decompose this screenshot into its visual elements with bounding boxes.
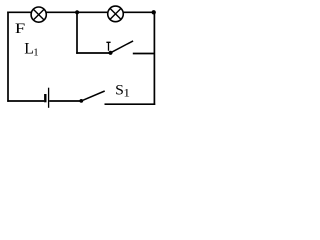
wire switch fixed contact to right vertical bbox=[133, 53, 155, 55]
node A junction dot (top branch) bbox=[75, 10, 79, 14]
battery negative plate (short thick) bbox=[44, 94, 46, 102]
svg-text:F: F bbox=[15, 20, 25, 37]
node B junction dot (top right corner) bbox=[152, 10, 156, 14]
switch pivot dot (lamp branch switch) bbox=[108, 51, 112, 55]
wire branch vertical (node A down) bbox=[76, 12, 78, 54]
svg-text:S1: S1 bbox=[115, 83, 130, 99]
wire top (node A to corners) bbox=[7, 11, 155, 13]
lamp L1 (F) bbox=[31, 7, 46, 22]
switch terminal tick (T handle) bbox=[106, 42, 110, 50]
wire branch horizontal (to switch pivot) bbox=[76, 52, 110, 54]
wire right vertical bbox=[153, 12, 155, 106]
switch S1 pivot dot bbox=[79, 99, 83, 103]
switch blade (lamp branch, open) bbox=[111, 41, 134, 53]
wire battery to switch S1 bbox=[49, 100, 80, 102]
lamp L2 bbox=[108, 6, 124, 22]
battery positive plate (long thin) bbox=[48, 88, 50, 108]
wire bottom right (switch fixed contact to right corner) bbox=[105, 103, 156, 105]
wire left vertical bbox=[7, 12, 9, 102]
wire bottom left (to battery) bbox=[7, 100, 44, 102]
switch S1 blade (open) bbox=[81, 91, 104, 101]
svg-text:L1: L1 bbox=[24, 41, 38, 59]
